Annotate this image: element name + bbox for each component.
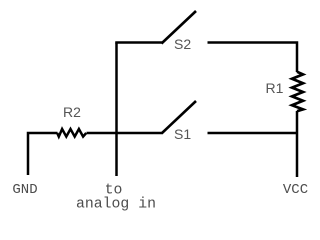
svg-text:S2: S2 [174,36,191,52]
wire S2 right contact to top-right corner and down to R1 [208,43,298,73]
wire top rail to S2 pivot [115,41,162,44]
svg-text:R2: R2 [63,104,81,120]
switch S1 blade [162,101,197,134]
svg-text:GND: GND [12,182,37,198]
wire GND riser and horizontal to R2 [28,133,58,175]
svg-text:analog in: analog in [76,196,156,212]
wire R2 to S1 pivot through junction node [87,132,163,135]
wire R1 to VCC terminal [296,111,299,177]
svg-text:S1: S1 [174,126,191,142]
resistor R2 [57,129,86,137]
resistor R1 [292,72,303,111]
wire center vertical (junction to top rail and down to analog in) [115,43,118,177]
wire S1 right contact to right rail [208,132,298,135]
svg-text:VCC: VCC [283,182,308,198]
switch S2 blade [162,11,197,44]
svg-text:R1: R1 [266,80,284,96]
